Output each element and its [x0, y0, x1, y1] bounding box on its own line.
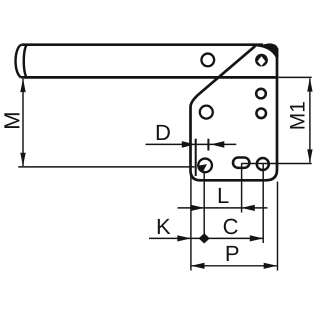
wedge mark in bottom hole [199, 164, 208, 173]
svg-text:M: M [0, 111, 24, 129]
arm pivot hole [201, 54, 214, 67]
dimension D extension right [207, 139, 209, 151]
dimension D arrow right (pointing left) [211, 141, 225, 148]
extension line plate right edge (down) [277, 182, 279, 271]
dimension D line [146, 143, 237, 145]
dimension M1 arrow up [307, 78, 312, 92]
right hole upper [256, 89, 266, 99]
dimension P arrow left (pointing left) [191, 263, 205, 269]
extension line slot center (down) [241, 164, 243, 213]
mounting slot (obround) [233, 158, 249, 168]
extension line hole center (down) [203, 172, 205, 243]
dimension K arrow (pointing right) [177, 235, 191, 241]
dimension L arrow left (pointing right) [191, 205, 205, 211]
dimension M line [22, 79, 24, 166]
svg-text:C: C [223, 214, 239, 239]
dimension D extension left [195, 139, 197, 176]
dimension P arrow right (pointing right) [264, 263, 278, 269]
plate top-right corner fill [254, 43, 279, 58]
hole centerline horizontal [241, 163, 312, 165]
right hole lower [256, 109, 266, 119]
dimension M arrow up [20, 79, 25, 93]
svg-text:L: L [217, 183, 229, 208]
dimension P line [191, 265, 277, 267]
clamp arm left end cap outer arc [16, 45, 22, 78]
svg-text:K: K [156, 214, 171, 239]
dimension M extension line [18, 166, 194, 168]
dimension M1 extension line top [278, 76, 311, 78]
dimension M1 line [309, 79, 311, 163]
dimension C arrow right (pointing right) [250, 235, 263, 241]
plate hole left [200, 106, 213, 119]
bottom hole diameter D [198, 159, 212, 173]
shared diamond at hole center [199, 233, 210, 243]
carriage bolt hole (round with square) [255, 54, 268, 67]
dimension L line [178, 207, 268, 209]
svg-text:M1: M1 [287, 101, 310, 130]
extension line circle center (down) [262, 164, 264, 243]
clamp arm bar top edge [22, 43, 263, 46]
dimension D arrow left (pointing right) [182, 141, 196, 148]
bottom right hole [257, 158, 269, 170]
dimension M1 arrow down [307, 149, 312, 163]
extension line plate left edge (down) [190, 172, 192, 271]
svg-text:P: P [225, 241, 240, 266]
dimension L arrow right (pointing left) [241, 205, 255, 211]
clamp arm left end cap inner arc [24, 45, 28, 78]
svg-text:D: D [155, 120, 171, 145]
dimension C/K line [149, 237, 263, 239]
dimension M arrow down [20, 153, 25, 167]
clamp arm bar bottom edge [21, 76, 278, 79]
plate outline [191, 46, 278, 180]
